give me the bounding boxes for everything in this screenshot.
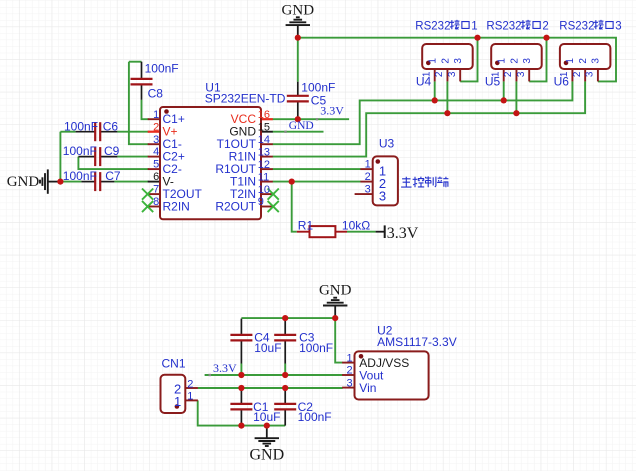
svg-text:6: 6 — [153, 171, 159, 183]
svg-text:Vin: Vin — [359, 381, 376, 395]
svg-text:1: 1 — [428, 58, 439, 64]
svg-text:RS232: RS232 — [415, 20, 450, 32]
svg-text:1: 1 — [471, 20, 477, 32]
svg-text:100nF: 100nF — [301, 80, 335, 94]
svg-text:2: 2 — [503, 71, 514, 77]
svg-text:12: 12 — [258, 159, 270, 171]
svg-text:100nF: 100nF — [298, 410, 332, 424]
svg-text:1: 1 — [559, 71, 570, 77]
svg-text:GND: GND — [282, 2, 315, 18]
svg-text:10uF: 10uF — [253, 410, 280, 424]
svg-text:C8: C8 — [148, 87, 164, 101]
svg-text:15: 15 — [258, 121, 270, 133]
svg-text:3: 3 — [153, 134, 159, 146]
svg-text:C6: C6 — [103, 119, 119, 133]
svg-text:GND: GND — [319, 283, 352, 299]
svg-text:2: 2 — [542, 20, 548, 32]
svg-text:1: 1 — [490, 71, 501, 77]
svg-text:1: 1 — [421, 71, 432, 77]
svg-text:10kΩ: 10kΩ — [342, 219, 370, 233]
svg-text:4: 4 — [153, 146, 159, 158]
svg-text:R2IN: R2IN — [163, 199, 190, 213]
svg-text:2: 2 — [434, 71, 445, 77]
svg-text:10uF: 10uF — [254, 341, 281, 355]
svg-text:GND: GND — [7, 174, 40, 190]
svg-text:3: 3 — [591, 58, 602, 64]
svg-text:13: 13 — [258, 146, 270, 158]
svg-text:100nF: 100nF — [145, 62, 179, 76]
svg-text:1: 1 — [174, 394, 181, 409]
svg-text:100nF: 100nF — [63, 144, 97, 158]
svg-text:RS232: RS232 — [486, 20, 521, 32]
svg-text:3.3V: 3.3V — [213, 361, 237, 375]
svg-text:CN1: CN1 — [162, 356, 186, 370]
svg-text:10: 10 — [258, 184, 270, 196]
svg-text:8: 8 — [153, 196, 159, 208]
svg-text:3: 3 — [516, 71, 527, 77]
svg-text:2: 2 — [578, 58, 589, 64]
svg-text:R2OUT: R2OUT — [215, 199, 256, 213]
svg-text:1: 1 — [497, 58, 508, 64]
svg-text:2: 2 — [572, 71, 583, 77]
svg-text:RS232: RS232 — [559, 20, 594, 32]
svg-text:3: 3 — [365, 184, 371, 196]
svg-text:3.3V: 3.3V — [387, 225, 419, 242]
svg-text:2: 2 — [440, 58, 451, 64]
svg-text:GND: GND — [289, 120, 314, 132]
svg-text:100nF: 100nF — [63, 169, 97, 183]
svg-text:14: 14 — [258, 134, 270, 146]
svg-text:SP232EEN-TD: SP232EEN-TD — [205, 92, 286, 106]
svg-text:2: 2 — [346, 365, 352, 377]
svg-text:1: 1 — [346, 352, 352, 364]
svg-text:C9: C9 — [104, 144, 120, 158]
svg-text:U3: U3 — [379, 136, 395, 150]
svg-text:5: 5 — [153, 159, 159, 171]
svg-text:1: 1 — [153, 109, 159, 121]
svg-text:1: 1 — [565, 58, 576, 64]
svg-text:100nF: 100nF — [299, 341, 333, 355]
svg-text:2: 2 — [153, 121, 159, 133]
svg-text:3: 3 — [379, 189, 386, 204]
svg-text:3: 3 — [447, 71, 458, 77]
svg-text:11: 11 — [258, 171, 269, 183]
svg-text:1: 1 — [365, 159, 371, 171]
svg-text:16: 16 — [258, 109, 270, 121]
svg-text:2: 2 — [509, 58, 520, 64]
svg-text:C7: C7 — [105, 169, 121, 183]
svg-text:3.3V: 3.3V — [320, 104, 344, 118]
svg-text:AMS1117-3.3V: AMS1117-3.3V — [377, 335, 457, 349]
svg-text:9: 9 — [258, 196, 264, 208]
svg-text:3: 3 — [346, 377, 352, 389]
svg-text:3: 3 — [453, 58, 464, 64]
svg-text:2: 2 — [187, 378, 193, 390]
svg-text:3: 3 — [585, 71, 596, 77]
svg-text:7: 7 — [153, 184, 159, 196]
svg-text:3: 3 — [615, 20, 621, 32]
svg-text:2: 2 — [365, 171, 371, 183]
svg-text:1: 1 — [187, 391, 193, 403]
svg-text:100nF: 100nF — [64, 119, 98, 133]
svg-text:GND: GND — [249, 447, 284, 464]
svg-text:R1: R1 — [298, 219, 314, 233]
svg-text:3: 3 — [522, 58, 533, 64]
